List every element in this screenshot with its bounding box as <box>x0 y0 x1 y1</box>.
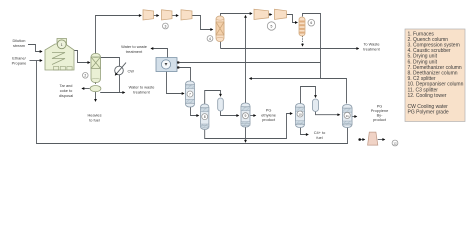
svg-text:7: 7 <box>189 92 191 96</box>
svg-text:4: 4 <box>209 37 211 41</box>
svg-text:treatment: treatment <box>133 89 150 94</box>
svg-text:disposal: disposal <box>59 93 73 98</box>
svg-text:Propane: Propane <box>12 61 27 66</box>
svg-text:2: 2 <box>84 74 86 78</box>
svg-text:treatment: treatment <box>126 49 143 54</box>
svg-text:PG Polymer grade: PG Polymer grade <box>408 110 449 116</box>
svg-text:3: 3 <box>164 24 166 28</box>
svg-text:CW: CW <box>128 68 135 73</box>
svg-text:fuel: fuel <box>316 135 322 140</box>
svg-text:8: 8 <box>204 115 206 119</box>
svg-text:product: product <box>373 117 387 122</box>
svg-text:to fuel: to fuel <box>89 118 100 123</box>
svg-text:6: 6 <box>310 21 312 25</box>
svg-text:12. Cooling tower: 12. Cooling tower <box>408 93 447 99</box>
svg-text:product: product <box>262 117 276 122</box>
svg-text:stream: stream <box>13 43 25 48</box>
svg-text:9: 9 <box>245 114 247 118</box>
svg-text:11: 11 <box>346 114 349 118</box>
svg-text:1: 1 <box>61 43 63 47</box>
svg-text:10: 10 <box>298 112 302 116</box>
svg-text:12: 12 <box>393 141 397 145</box>
svg-text:5: 5 <box>271 24 273 28</box>
svg-text:treatment: treatment <box>363 47 380 52</box>
